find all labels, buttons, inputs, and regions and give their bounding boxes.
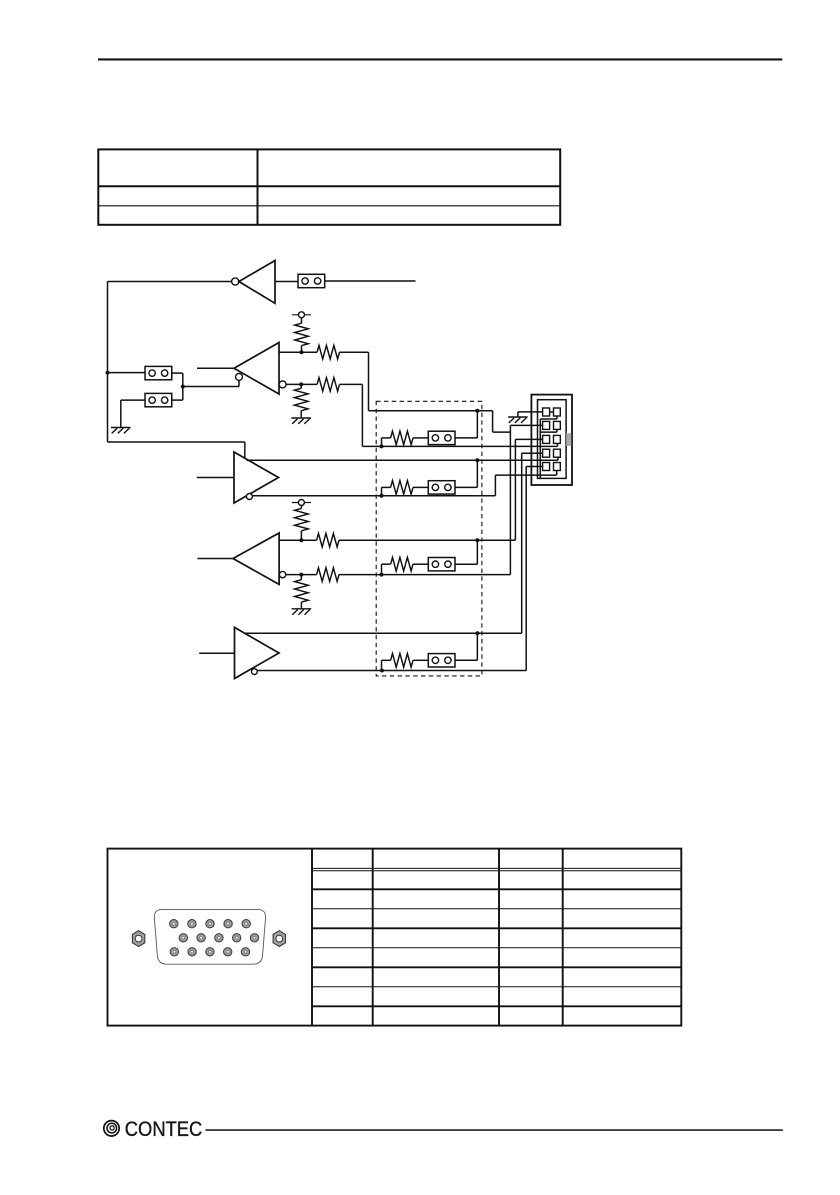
svg-text:CONTEC: CONTEC: [125, 1118, 203, 1141]
